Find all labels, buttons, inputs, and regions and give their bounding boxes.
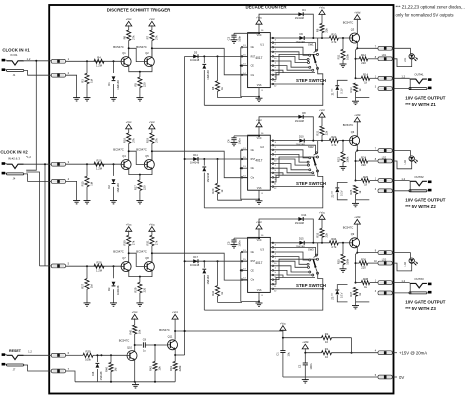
svg-text:C4: C4 bbox=[226, 139, 230, 143]
svg-text:Q1: Q1 bbox=[122, 51, 126, 55]
diode D12 1N4148 vertical bbox=[202, 159, 210, 208]
transistor Q4 BC547C bbox=[113, 148, 131, 170]
IC U1 vss to ground bbox=[256, 88, 263, 102]
svg-text:BC547C: BC547C bbox=[113, 250, 124, 254]
svg-text:1N4148: 1N4148 bbox=[206, 172, 210, 182]
resistor R11 100k bbox=[337, 37, 350, 64]
resistor R29 220 bbox=[134, 277, 147, 303]
svg-text:4: 4 bbox=[275, 151, 277, 153]
svg-text:2: 2 bbox=[68, 71, 70, 75]
diode D2 1N4148 bbox=[107, 164, 120, 200]
wire pad4 to ground bbox=[0, 0, 1, 1]
vdd arrow power bbox=[302, 340, 309, 353]
svg-text:CLOCK IN #1: CLOCK IN #1 bbox=[2, 48, 30, 53]
rst row wire chD5 bbox=[185, 55, 248, 57]
svg-text:10k: 10k bbox=[158, 366, 162, 371]
svg-text:R20: R20 bbox=[211, 188, 215, 193]
IC U1 enable pins to ground rail bbox=[240, 47, 260, 97]
svg-text:1: 1 bbox=[375, 280, 377, 283]
wire J7 tip to pad 6 bbox=[24, 354, 52, 356]
svg-text:R9: R9 bbox=[316, 28, 320, 32]
svg-text:1N4148: 1N4148 bbox=[295, 221, 305, 225]
ground under C5 bbox=[231, 245, 238, 248]
svg-text:R1: R1 bbox=[325, 347, 329, 351]
svg-text:100n: 100n bbox=[309, 363, 313, 369]
resistor R38 1k bbox=[356, 277, 379, 289]
svg-text:5: 5 bbox=[68, 262, 70, 266]
svg-text:*** Z1,Z2,Z3 optional zener di: *** Z1,Z2,Z3 optional zener diodes,.. bbox=[396, 4, 465, 9]
resistor R27 1M bbox=[81, 266, 94, 303]
reset ground rail bbox=[75, 381, 175, 388]
svg-text:OUT#3: OUT#3 bbox=[414, 277, 424, 281]
svg-text:VSS: VSS bbox=[257, 290, 262, 292]
IC U2 left pins bbox=[241, 148, 247, 178]
svg-text:R35: R35 bbox=[337, 259, 341, 264]
transistor Q5 BC547C bbox=[136, 148, 154, 170]
transistor Q11 BC547C bbox=[159, 328, 177, 350]
svg-text:11: 11 bbox=[274, 286, 277, 288]
svg-text:Q11: Q11 bbox=[168, 335, 173, 339]
edge pad 10 LD3 bbox=[374, 259, 392, 266]
svg-text:DECADE COUNTER: DECADE COUNTER bbox=[245, 5, 287, 10]
svg-text:+Vcc: +Vcc bbox=[126, 120, 133, 124]
svg-text:3: 3 bbox=[375, 86, 377, 89]
svg-text:D5: D5 bbox=[194, 50, 198, 54]
svg-text:DISCRETE SCHMITT TRIGGER: DISCRETE SCHMITT TRIGGER bbox=[107, 7, 171, 12]
wire J4 tip to pad 3 bbox=[24, 163, 52, 165]
main schematic frame bbox=[49, 5, 393, 394]
svg-text:RST: RST bbox=[251, 56, 256, 58]
resistor R9 22k bbox=[316, 24, 329, 39]
svg-text:4: 4 bbox=[68, 177, 70, 181]
edge pad 6 bbox=[51, 351, 69, 357]
transistor Q6 emitter chain bbox=[355, 145, 379, 182]
diode D1 1N4148 bbox=[107, 61, 120, 97]
svg-text:+Vdd: +Vdd bbox=[354, 113, 361, 117]
wire J7 sleeve to pad 7 bbox=[24, 365, 52, 371]
IC U3 vss to ground bbox=[256, 292, 263, 306]
svg-text:CE: CE bbox=[251, 47, 255, 49]
resistor R31 27k bbox=[146, 235, 159, 262]
svg-text:*** 5V WITH Z1: *** 5V WITH Z1 bbox=[405, 102, 436, 107]
diode D15 1N4148 bbox=[272, 237, 329, 252]
svg-text:BC547C: BC547C bbox=[343, 225, 354, 229]
IC U3 left pins bbox=[241, 250, 247, 280]
step switch SW1 contacts bbox=[307, 49, 318, 71]
coupling wire Q collector to Q base bbox=[128, 252, 144, 266]
transistor Q1 BC547C bbox=[113, 45, 131, 67]
IC U1 output pins bbox=[270, 37, 277, 87]
transistor Q3 emitter chain bbox=[355, 42, 379, 79]
IC U1 4017 decade counter bbox=[248, 30, 271, 92]
svg-text:U3: U3 bbox=[260, 247, 264, 251]
svg-text:4.7k: 4.7k bbox=[331, 40, 337, 44]
svg-text:J1: J1 bbox=[13, 73, 16, 77]
svg-text:VCC: VCC bbox=[257, 240, 262, 242]
edge pad out tip bbox=[375, 75, 392, 80]
coupling wire Q collector to Q base bbox=[128, 150, 144, 164]
vcc arrow over R21 bbox=[319, 108, 326, 126]
diode D10 1N4148 bbox=[272, 134, 329, 149]
clock input jack J4 CLOCK IN #2 bbox=[0, 150, 31, 181]
vdd arrow over Q6 bbox=[354, 113, 361, 136]
svg-text:1.2M: 1.2M bbox=[96, 64, 103, 68]
diode D7 1N4148 vertical bbox=[202, 56, 210, 105]
svg-text:LD3: LD3 bbox=[404, 261, 407, 266]
svg-text:10k: 10k bbox=[137, 329, 141, 334]
wire input row ch R4 bbox=[66, 60, 121, 62]
capacitor C5 100n bbox=[226, 238, 259, 246]
svg-text:10V GATE OUTPUT: 10V GATE OUTPUT bbox=[405, 198, 445, 203]
svg-text:8: 8 bbox=[375, 158, 377, 161]
svg-text:1k: 1k bbox=[220, 189, 224, 192]
resistor R8 1k bbox=[211, 56, 242, 97]
edge pad out sleeve bbox=[375, 188, 392, 193]
svg-text:C8: C8 bbox=[143, 338, 147, 341]
svg-text:BC547C: BC547C bbox=[343, 123, 354, 127]
svg-text:10: 10 bbox=[274, 161, 277, 163]
edge pad out sleeve bbox=[375, 290, 392, 295]
svg-text:1M: 1M bbox=[114, 367, 118, 371]
zener Z3 optional bbox=[331, 285, 348, 302]
svg-text:10: 10 bbox=[325, 355, 328, 359]
svg-text:4017: 4017 bbox=[255, 56, 262, 60]
transistor Q8 BC547C bbox=[136, 250, 154, 272]
svg-text:R11: R11 bbox=[337, 54, 341, 59]
svg-text:CIn: CIn bbox=[251, 75, 255, 77]
transistor Q7 BC547C bbox=[113, 250, 131, 272]
svg-text:Q9: Q9 bbox=[351, 232, 355, 236]
svg-text:SW3: SW3 bbox=[308, 247, 314, 251]
resistor R17 220 bbox=[134, 175, 147, 201]
svg-text:220: 220 bbox=[143, 185, 147, 190]
svg-text:D14: D14 bbox=[302, 213, 307, 217]
transistor Q9 BC547C bbox=[343, 225, 360, 247]
wire pad2 to ground bbox=[66, 75, 81, 101]
vcc arrow over R31 bbox=[149, 222, 156, 235]
IC U3 4017 decade counter bbox=[248, 235, 271, 297]
diode D3 1N4148 bbox=[107, 266, 120, 303]
resistor R22 4.7k bbox=[329, 135, 349, 147]
svg-text:R32: R32 bbox=[211, 290, 215, 295]
svg-text:Q6: Q6 bbox=[351, 130, 355, 134]
step switch SW3 common out bbox=[204, 268, 323, 310]
svg-text:R27: R27 bbox=[81, 283, 85, 288]
svg-text:R23: R23 bbox=[337, 157, 341, 162]
wire J4 normal chain down bbox=[26, 163, 46, 266]
svg-text:+Vcc: +Vcc bbox=[172, 310, 179, 314]
resistor R24 220 bbox=[356, 155, 379, 167]
resistor R37 1k bbox=[349, 287, 369, 302]
svg-text:R24: R24 bbox=[361, 155, 366, 159]
resistor R4 1.2M bbox=[94, 56, 104, 68]
edge pad 8 LD1 bbox=[375, 54, 392, 61]
svg-text:10: 10 bbox=[274, 263, 277, 265]
svg-text:R12: R12 bbox=[361, 53, 366, 57]
resistor R34 4.7k bbox=[329, 237, 349, 249]
vcc arrow over Q11 bbox=[172, 310, 179, 340]
wire input row ch R16 bbox=[66, 163, 121, 165]
svg-text:1.2M: 1.2M bbox=[96, 166, 103, 170]
vcc arrow over R18 bbox=[126, 120, 133, 133]
svg-text:D10: D10 bbox=[299, 134, 304, 138]
svg-text:+Vcc: +Vcc bbox=[132, 310, 139, 314]
emitter rail bbox=[129, 169, 152, 176]
svg-text:22k: 22k bbox=[325, 28, 329, 33]
diode D5 1N4148 bbox=[190, 50, 200, 62]
svg-text:1k: 1k bbox=[364, 183, 367, 187]
clock input jack J1 CLOCK IN #1 bbox=[2, 48, 31, 78]
wire R2 to +15V rail bbox=[351, 338, 353, 354]
svg-text:5: 5 bbox=[275, 272, 277, 274]
label STEP SWITCH SW3 bbox=[296, 283, 326, 288]
vcc arrow power bbox=[280, 321, 287, 337]
svg-text:7: 7 bbox=[275, 258, 277, 260]
svg-text:BC547C: BC547C bbox=[119, 339, 130, 343]
svg-text:2: 2 bbox=[275, 147, 277, 149]
step switch SW3 wiper bbox=[313, 243, 318, 268]
svg-text:+Vdd: +Vdd bbox=[354, 215, 361, 219]
svg-text:1N4148: 1N4148 bbox=[116, 80, 120, 90]
svg-text:100k: 100k bbox=[346, 258, 350, 264]
diode D18 1N4148 vertical bbox=[202, 261, 210, 310]
svg-text:+Vcc: +Vcc bbox=[126, 17, 133, 21]
svg-text:R13: R13 bbox=[349, 87, 353, 92]
diode D17 1N4148 bbox=[190, 255, 200, 267]
svg-text:STEP SWITCH: STEP SWITCH bbox=[296, 78, 326, 83]
svg-text:1N4148: 1N4148 bbox=[296, 40, 306, 44]
svg-text:5.1V: 5.1V bbox=[340, 190, 344, 196]
svg-text:+Vcc: +Vcc bbox=[280, 321, 287, 325]
ground under R37 bbox=[352, 302, 359, 309]
resistor R41 10k bbox=[128, 318, 141, 351]
svg-text:D1: D1 bbox=[107, 82, 111, 86]
svg-text:1N4148: 1N4148 bbox=[295, 16, 305, 20]
transistor Q9 emitter chain bbox=[355, 247, 379, 283]
svg-text:D3: D3 bbox=[107, 287, 111, 291]
svg-text:1M: 1M bbox=[90, 181, 94, 185]
schmitt output wire bbox=[151, 252, 248, 280]
svg-text:CLOCK IN #2: CLOCK IN #2 bbox=[0, 150, 28, 155]
rst row wire chD11 bbox=[185, 158, 248, 160]
IC U2 enable pins to ground rail bbox=[240, 150, 260, 200]
svg-text:4017: 4017 bbox=[255, 261, 262, 265]
svg-text:CE: CE bbox=[251, 252, 255, 254]
ground under D3 bbox=[110, 303, 117, 306]
svg-text:BC547C: BC547C bbox=[136, 250, 147, 254]
svg-text:100n: 100n bbox=[238, 240, 242, 246]
svg-text:R31: R31 bbox=[146, 240, 150, 245]
svg-text:+Vcc: +Vcc bbox=[319, 6, 326, 10]
svg-text:220: 220 bbox=[143, 287, 147, 292]
svg-text:R33: R33 bbox=[316, 232, 320, 237]
resistor R35 100k bbox=[337, 242, 350, 269]
svg-text:100k: 100k bbox=[85, 358, 91, 362]
ground under R27 bbox=[84, 303, 91, 306]
svg-text:4: 4 bbox=[375, 350, 377, 353]
resistor R5 220 bbox=[134, 72, 147, 98]
label +15V @ 20mA bbox=[392, 351, 427, 356]
ground under D1 bbox=[110, 98, 117, 101]
svg-text:CIn: CIn bbox=[251, 280, 255, 282]
svg-text:1k: 1k bbox=[364, 81, 367, 85]
vdd arrow over Q3 bbox=[354, 10, 361, 33]
edge pad out tip bbox=[375, 280, 392, 285]
edge pad 3 bbox=[51, 160, 69, 166]
svg-text:27k: 27k bbox=[131, 35, 135, 40]
svg-text:5.1V: 5.1V bbox=[340, 88, 344, 94]
svg-text:27k: 27k bbox=[131, 138, 135, 143]
svg-text:LD2: LD2 bbox=[404, 159, 407, 164]
resistor R20 1k bbox=[211, 159, 242, 200]
IC U2 output pins bbox=[270, 140, 277, 190]
reset bus vertical bbox=[184, 56, 186, 355]
svg-text:27k: 27k bbox=[131, 240, 135, 245]
svg-text:2: 2 bbox=[275, 44, 277, 46]
ground under R3 bbox=[84, 98, 91, 101]
label 10V GATE OUTPUT ch1 bbox=[405, 95, 445, 107]
svg-text:Q4: Q4 bbox=[122, 154, 126, 158]
capacitor C8 1u bbox=[134, 338, 167, 352]
svg-text:U1: U1 bbox=[260, 43, 264, 47]
svg-text:1u: 1u bbox=[143, 349, 146, 352]
vcc arrow over R30 bbox=[126, 222, 133, 235]
wire J1 tip to pad 1 bbox=[24, 60, 52, 63]
step switch SW3 contacts bbox=[307, 254, 318, 276]
svg-text:1,2: 1,2 bbox=[27, 57, 31, 61]
svg-text:27k: 27k bbox=[155, 35, 159, 40]
edge pad 7 bbox=[375, 148, 392, 153]
resistor R30 27k bbox=[122, 235, 135, 262]
svg-text:1N4148: 1N4148 bbox=[190, 263, 200, 267]
svg-text:+Vcc: +Vcc bbox=[319, 210, 326, 214]
svg-text:1N4148: 1N4148 bbox=[296, 245, 306, 249]
resistor R40 1M bbox=[105, 355, 118, 382]
svg-text:CE: CE bbox=[251, 150, 255, 152]
schmitt output wire bbox=[151, 150, 248, 178]
svg-text:10V GATE OUTPUT: 10V GATE OUTPUT bbox=[405, 95, 445, 100]
svg-text:only for normalized 5V outputs: only for normalized 5V outputs bbox=[396, 13, 454, 18]
svg-text:10u: 10u bbox=[287, 351, 291, 356]
svg-text:5.1V: 5.1V bbox=[340, 292, 344, 298]
edge pad 8 LD2 bbox=[375, 156, 392, 163]
vcc arrow over U2 bbox=[256, 118, 263, 137]
svg-text:R15: R15 bbox=[81, 181, 85, 186]
edge pad 7 bbox=[375, 45, 392, 50]
capacitor C4 100n bbox=[226, 136, 259, 144]
zener Z1 optional bbox=[331, 80, 348, 97]
svg-text:+Vcc: +Vcc bbox=[126, 222, 133, 226]
wire pad7 to ground rail bbox=[66, 371, 76, 382]
resistor R10 4.7k bbox=[329, 32, 349, 44]
svg-text:R39: R39 bbox=[86, 350, 91, 354]
svg-text:CE: CE bbox=[251, 270, 255, 272]
label 0V bbox=[392, 375, 404, 380]
step switch SW2 wiper bbox=[313, 141, 318, 166]
svg-text:LD1: LD1 bbox=[404, 57, 407, 62]
svg-text:R18: R18 bbox=[122, 138, 126, 143]
svg-text:OUT#2: OUT#2 bbox=[414, 175, 424, 179]
svg-text:D11: D11 bbox=[193, 153, 198, 157]
svg-text:9: 9 bbox=[375, 250, 377, 253]
svg-text:27k: 27k bbox=[155, 240, 159, 245]
svg-text:C3: C3 bbox=[226, 36, 230, 40]
resistor R42 10k bbox=[149, 344, 162, 382]
svg-text:1N4148: 1N4148 bbox=[116, 183, 120, 193]
svg-text:12: 12 bbox=[274, 188, 277, 190]
svg-text:RESET: RESET bbox=[9, 349, 22, 353]
svg-text:CIn: CIn bbox=[251, 177, 255, 179]
ground under C4 bbox=[231, 142, 238, 145]
wire J1 sleeve to pad 2 bbox=[24, 71, 52, 76]
svg-text:22k: 22k bbox=[325, 232, 329, 237]
note optional zener diodes bbox=[396, 4, 465, 17]
svg-text:12: 12 bbox=[274, 86, 277, 88]
svg-text:+15V @ 20mA: +15V @ 20mA bbox=[399, 351, 427, 356]
wire pad4 to ground bbox=[66, 181, 81, 204]
IC U3 output pins bbox=[270, 242, 277, 292]
svg-text:1.2M: 1.2M bbox=[96, 268, 103, 272]
svg-text:R3: R3 bbox=[81, 79, 85, 83]
svg-text:1k: 1k bbox=[358, 292, 362, 295]
resistor R32 1k bbox=[211, 261, 242, 302]
svg-text:220: 220 bbox=[361, 265, 366, 269]
ground under R13 bbox=[352, 98, 359, 105]
0V rail bbox=[283, 376, 378, 378]
resistor R12 220 bbox=[356, 53, 379, 65]
resistor R28 1.2M bbox=[94, 261, 104, 273]
svg-text:Q2: Q2 bbox=[145, 51, 149, 55]
transistor Q6 BC547C bbox=[343, 123, 360, 145]
svg-text:VCC: VCC bbox=[257, 138, 262, 140]
svg-text:R26: R26 bbox=[363, 175, 368, 179]
wire J4 sleeve to pad 4 bbox=[24, 174, 52, 182]
svg-text:R4: R4 bbox=[97, 56, 101, 60]
step switch SW1 common out bbox=[204, 64, 323, 106]
wire Q11 collector rail bbox=[174, 330, 283, 332]
svg-text:R19: R19 bbox=[146, 138, 150, 143]
svg-text:1: 1 bbox=[275, 63, 277, 65]
edge pad 0V bbox=[375, 374, 392, 379]
output jack OUT#2 bbox=[392, 175, 431, 192]
ground under R25 bbox=[352, 200, 359, 207]
svg-text:+Vcc: +Vcc bbox=[149, 17, 156, 21]
svg-text:OUT#1: OUT#1 bbox=[414, 73, 424, 77]
led LD3 bbox=[392, 253, 418, 271]
ground under R23 bbox=[340, 167, 347, 170]
svg-text:220: 220 bbox=[143, 82, 147, 87]
svg-text:R43: R43 bbox=[169, 366, 173, 371]
svg-text:16: 16 bbox=[261, 235, 264, 237]
svg-text:+Vdd: +Vdd bbox=[354, 10, 361, 14]
rst row wire chD17 bbox=[185, 260, 248, 262]
svg-text:5: 5 bbox=[275, 170, 277, 172]
emitter rail bbox=[129, 66, 152, 73]
svg-text:5: 5 bbox=[375, 374, 377, 377]
wire Q11 emitter to reset bus bbox=[175, 354, 184, 356]
svg-text:R16: R16 bbox=[97, 159, 102, 163]
svg-text:R36: R36 bbox=[361, 258, 366, 262]
svg-text:*** 5V WITH Z2: *** 5V WITH Z2 bbox=[405, 204, 436, 209]
edge pad +15V bbox=[375, 350, 392, 355]
svg-text:D15: D15 bbox=[299, 237, 304, 241]
svg-text:CE: CE bbox=[251, 66, 255, 68]
resistor R2 10 bbox=[282, 332, 352, 344]
svg-text:3: 3 bbox=[375, 290, 377, 293]
svg-text:1N4148: 1N4148 bbox=[206, 70, 210, 80]
output jack OUT#1 bbox=[392, 73, 431, 90]
svg-text:R29: R29 bbox=[134, 287, 138, 292]
